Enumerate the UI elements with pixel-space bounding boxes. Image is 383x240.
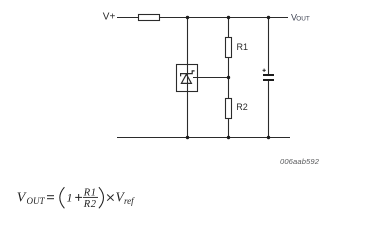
shunt regulator U1 box xyxy=(177,65,198,92)
junction node top A xyxy=(186,16,189,19)
svg-text:V+: V+ xyxy=(103,12,116,23)
junction node bottom C xyxy=(267,136,270,139)
formula VOUT = (1 + R1/R2) x Vref xyxy=(17,187,135,210)
svg-text:OUT: OUT xyxy=(27,196,46,206)
resistor series (top) xyxy=(139,15,160,21)
junction node top B xyxy=(227,16,230,19)
wire capacitor branch xyxy=(268,18,270,75)
wire reference pin to divider xyxy=(193,77,229,79)
resistor R2 xyxy=(226,99,232,119)
svg-text:006aab592: 006aab592 xyxy=(280,157,320,166)
junction node bottom A xyxy=(186,136,189,139)
junction node bottom B xyxy=(227,136,230,139)
wire vertical regulator branch xyxy=(187,18,189,138)
junction node top C xyxy=(267,16,270,19)
svg-text:R1: R1 xyxy=(83,188,97,199)
wire top rail left xyxy=(117,17,288,19)
svg-text:OUT: OUT xyxy=(296,16,310,23)
svg-text:V: V xyxy=(17,191,27,206)
capacitor plus sign xyxy=(263,69,266,72)
svg-text:R2: R2 xyxy=(236,102,248,112)
wire bottom rail xyxy=(117,137,290,139)
resistor R1 xyxy=(226,38,232,58)
wire through regulator xyxy=(187,65,189,92)
capacitor C1 polarized plates xyxy=(263,74,274,76)
svg-text:R1: R1 xyxy=(237,42,249,52)
wire R1 branch vertical xyxy=(228,18,230,138)
svg-text:R2: R2 xyxy=(83,199,97,210)
zener diode symbol inside U1 xyxy=(181,71,195,84)
svg-text:ref: ref xyxy=(124,196,135,206)
junction node divider ref xyxy=(227,76,230,79)
svg-text:1: 1 xyxy=(67,191,73,205)
